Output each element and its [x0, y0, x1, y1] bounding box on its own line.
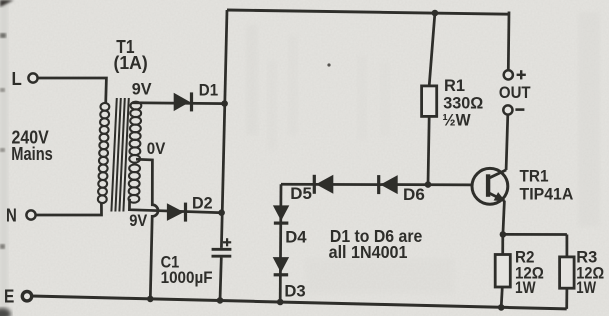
svg-text:(1A): (1A) — [114, 53, 148, 73]
svg-text:TR1: TR1 — [520, 167, 549, 185]
junction D1 / main vertical — [221, 100, 228, 107]
wire R2 top lead — [501, 234, 504, 254]
svg-text:D6: D6 — [403, 185, 425, 204]
wire 9V bottom tap to D2 and junction — [129, 199, 222, 213]
svg-text:TIP41A: TIP41A — [520, 185, 574, 203]
wire base chain D5 D6 to TR1 base — [281, 183, 472, 186]
transformer T1 primary winding — [101, 103, 110, 111]
wire N to transformer — [36, 204, 102, 216]
junction D2 / main vertical — [218, 209, 225, 216]
transistor TR1 — [472, 168, 508, 204]
label - sign at OUT — [515, 108, 524, 111]
wire main vertical D1/D2/C1 (upper) — [221, 10, 227, 248]
terminal L — [28, 73, 37, 82]
svg-text:1W: 1W — [515, 279, 536, 297]
terminal E — [22, 292, 31, 301]
transformer T1 core — [111, 98, 116, 212]
wire 9V top tap to D1 and junction — [132, 101, 225, 105]
diode D6 — [380, 175, 397, 194]
svg-text:all 1N4001: all 1N4001 — [329, 242, 408, 262]
wire R3 top lead — [566, 235, 569, 258]
junction D3 / bottom rail — [277, 299, 284, 306]
terminal N — [26, 210, 35, 219]
terminal - OUT — [503, 105, 512, 114]
capacitor C1 plus sign — [223, 241, 231, 243]
junction R2 / bottom rail — [498, 304, 505, 311]
diode D1 — [174, 93, 190, 111]
diode D5 — [316, 175, 333, 194]
svg-text:1W: 1W — [576, 279, 596, 297]
svg-text:D2: D2 — [192, 194, 213, 213]
junction emitter / R2 R3 — [500, 231, 507, 238]
wire R3 bottom lead — [565, 288, 568, 309]
transformer T1 secondary winding lower half — [129, 164, 140, 172]
junction R1 / base wire — [425, 181, 432, 188]
resistor R3 — [560, 257, 575, 288]
wire TR1 emitter down to R2 R3 junction — [503, 201, 505, 235]
wire right drop to + OUT — [507, 12, 510, 71]
wire R1 bottom connection — [428, 116, 429, 184]
wire - OUT to TR1 collector — [506, 115, 508, 170]
terminal + OUT — [504, 70, 513, 79]
svg-text:L: L — [12, 69, 22, 89]
svg-text:0V: 0V — [147, 139, 166, 158]
wire R2 R3 top link — [503, 233, 567, 236]
svg-text:9V: 9V — [132, 80, 152, 99]
svg-text:330Ω: 330Ω — [443, 95, 483, 113]
transformer T1 secondary winding upper half — [131, 102, 142, 110]
wire main vertical C1 to bottom rail — [220, 258, 221, 301]
wire D4 D3 branch vertical — [279, 184, 283, 302]
svg-text:OUT: OUT — [499, 84, 531, 102]
svg-text:½W: ½W — [442, 112, 471, 130]
resistor R2 — [495, 255, 510, 288]
svg-text:D4: D4 — [285, 228, 307, 247]
svg-text:D3: D3 — [284, 281, 305, 300]
resistor R1 — [422, 86, 437, 117]
svg-text:D1: D1 — [199, 80, 218, 99]
svg-text:E: E — [4, 287, 14, 307]
diode D2 — [167, 203, 184, 221]
diode D3 — [273, 257, 289, 273]
svg-text:N: N — [6, 206, 17, 226]
junction 0V / bottom rail — [147, 296, 154, 303]
diode D4 — [273, 205, 289, 221]
wire top rail — [227, 10, 509, 14]
wire 0V tap with hop over 9V wire — [136, 159, 158, 299]
svg-text:R1: R1 — [444, 77, 465, 95]
wire R2 bottom lead — [501, 287, 502, 308]
wire bottom rail — [32, 296, 567, 309]
label + sign at OUT — [517, 74, 526, 76]
svg-text:1000µF: 1000µF — [161, 268, 213, 287]
svg-text:9V: 9V — [129, 211, 148, 230]
junction main vertical / bottom rail — [217, 297, 224, 304]
wire L to transformer — [38, 78, 107, 104]
wire R1 top connection — [429, 13, 435, 86]
junction top rail / R1 — [432, 10, 439, 17]
svg-text:Mains: Mains — [11, 144, 53, 164]
capacitor C1 plates — [212, 248, 232, 251]
svg-text:D5: D5 — [290, 184, 312, 203]
